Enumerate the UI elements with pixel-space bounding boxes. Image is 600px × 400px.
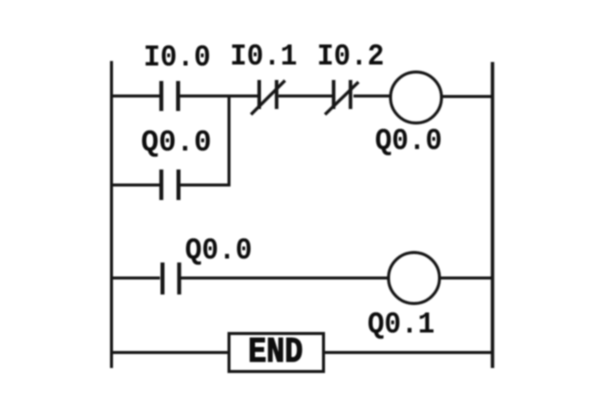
wire rung2 left segment xyxy=(111,277,160,280)
svg-text:Q0.0: Q0.0 xyxy=(375,124,442,158)
svg-text:Q0.0: Q0.0 xyxy=(185,234,252,268)
contact Q0.0 (branch, parallel with I0.0) xyxy=(161,170,178,201)
contact I0.2 (normally closed) xyxy=(325,80,359,115)
wire rung1 between I0.2 and coil xyxy=(354,95,392,98)
right power rail xyxy=(491,62,495,368)
wire rung1 between I0.1 and I0.2 xyxy=(279,95,333,98)
wire rung1 left segment xyxy=(111,95,160,98)
contact I0.1 (normally closed) xyxy=(251,80,285,115)
wire rung1 between I0.0 and I0.1 xyxy=(180,95,258,98)
svg-text:I0.2: I0.2 xyxy=(317,40,384,74)
contact I0.0 xyxy=(161,81,178,111)
wire branch right segment xyxy=(180,184,231,187)
svg-text:END: END xyxy=(248,333,303,372)
wire bottom rung right segment xyxy=(324,351,493,354)
wire rung2 coil to right rail xyxy=(440,277,493,280)
coil Q0.0 xyxy=(391,72,442,123)
svg-text:Q0.0: Q0.0 xyxy=(141,125,212,159)
wire rung1 coil to right rail xyxy=(442,95,493,98)
svg-text:I0.1: I0.1 xyxy=(230,40,297,74)
END box xyxy=(229,334,324,372)
contact Q0.0 (rung 2) xyxy=(163,263,180,295)
svg-text:Q0.1: Q0.1 xyxy=(368,308,435,342)
wire branch vertical junction xyxy=(228,95,231,187)
wire rung2 middle segment xyxy=(181,277,389,280)
left power rail xyxy=(110,61,113,368)
coil Q0.1 xyxy=(389,253,440,304)
wire bottom rung left segment xyxy=(111,351,229,354)
wire branch left segment xyxy=(111,184,160,187)
svg-text:I0.0: I0.0 xyxy=(144,41,211,75)
